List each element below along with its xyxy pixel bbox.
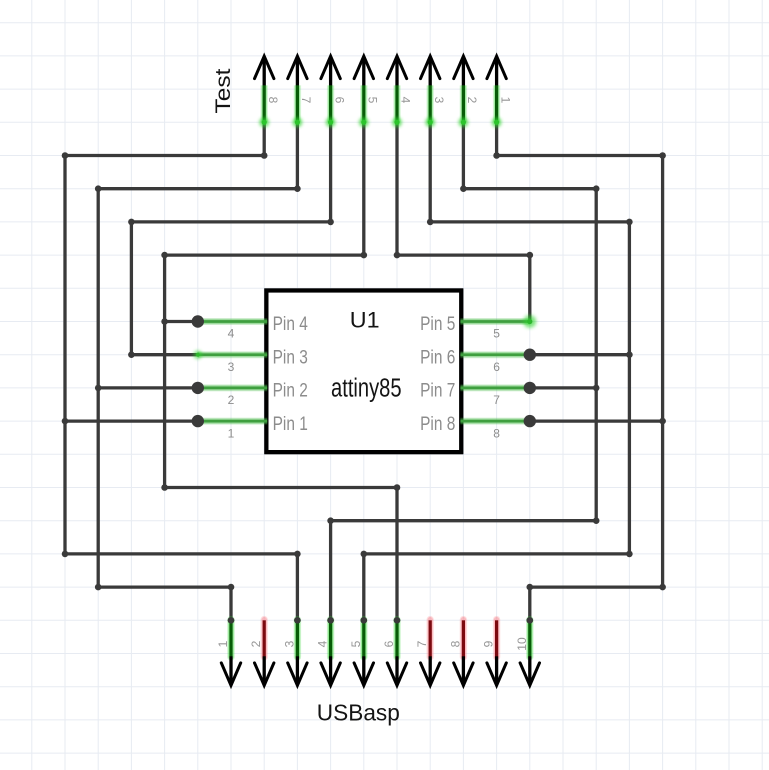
USBasp pin 1 arrow (221, 656, 240, 685)
junction wire end at U1 pin 1 (192, 415, 204, 427)
op-amp U1 attiny85 body (266, 290, 461, 452)
U1 pin 3 connection glow (193, 350, 202, 359)
svg-text:8: 8 (493, 426, 500, 440)
Test pin 6 leg (326, 85, 336, 127)
junction wire end at U1 pin 6 (524, 349, 536, 361)
wire net Test5-U1pin4-USBasp6 (161, 122, 400, 623)
U1 pin 5 leg (460, 318, 529, 325)
svg-text:5: 5 (366, 97, 380, 104)
svg-text:2: 2 (465, 97, 479, 104)
USBasp pin 5 leg (connected) (360, 620, 367, 657)
junction wire end at U1 pin 7 (524, 382, 536, 394)
junction wire end at USBasp pin 1 (228, 617, 235, 624)
svg-text:Pin 3: Pin 3 (273, 347, 308, 368)
wire net Test4-U1pin5 (394, 122, 533, 321)
USBasp pin 10 arrow (520, 656, 539, 685)
Test pin 8 arrow (255, 56, 274, 85)
junction wire end at USBasp pin 10 (527, 617, 534, 624)
U1 pin 5 connection glow (523, 315, 536, 328)
Test pin 6 arrow (321, 56, 340, 85)
svg-text:8: 8 (448, 640, 462, 647)
Test pin 4 leg (392, 85, 402, 127)
Test pin 7 leg (292, 85, 302, 127)
svg-text:7: 7 (415, 640, 429, 647)
USBasp pin 6 arrow (387, 656, 406, 685)
junction wire end at USBasp pin 4 (327, 617, 334, 624)
Test pin 4 arrow (387, 56, 406, 85)
svg-text:5: 5 (349, 640, 363, 647)
USBasp pin 7 arrow (421, 656, 440, 685)
svg-text:Pin 5: Pin 5 (420, 314, 455, 335)
USBasp pin 9 arrow (487, 656, 506, 685)
junction wire end at U1 pin 4 (192, 315, 204, 327)
svg-text:1: 1 (228, 426, 235, 440)
svg-text:Test: Test (211, 68, 235, 113)
USBasp pin 2 arrow (255, 656, 274, 685)
USBasp pin 7 leg (unconnected) (427, 620, 434, 657)
Test pin 3 leg (425, 85, 435, 127)
svg-text:USBasp: USBasp (317, 700, 400, 726)
svg-text:1: 1 (216, 640, 230, 647)
svg-text:7: 7 (299, 97, 313, 104)
svg-text:3: 3 (432, 97, 446, 104)
Test pin 7 arrow (288, 56, 307, 85)
USBasp pin 5 arrow (354, 656, 373, 685)
U1 pin 6 leg (460, 351, 529, 358)
svg-text:4: 4 (228, 327, 235, 341)
Test pin 3 arrow (421, 56, 440, 85)
junction wire end at USBasp pin 6 (394, 617, 401, 624)
USBasp pin 8 leg (unconnected) (460, 620, 467, 657)
U1 pin 1 leg (198, 418, 267, 425)
U1 pin 8 leg (460, 418, 529, 425)
Test pin 2 arrow (454, 56, 473, 85)
svg-text:4: 4 (316, 640, 330, 647)
Test pin 5 leg (359, 85, 369, 127)
Test pin 8 leg (259, 85, 269, 127)
svg-text:Pin 2: Pin 2 (273, 381, 308, 402)
svg-text:9: 9 (482, 640, 496, 647)
svg-text:3: 3 (228, 360, 235, 374)
svg-text:2: 2 (228, 393, 235, 407)
svg-text:U1: U1 (350, 307, 380, 332)
svg-text:Pin 4: Pin 4 (273, 314, 309, 335)
U1 pin 4 leg (198, 318, 267, 325)
svg-text:3: 3 (282, 640, 296, 647)
wire net Test2-U1pin7-USBasp4 (327, 122, 599, 623)
USBasp pin 4 arrow (321, 656, 340, 685)
svg-text:6: 6 (332, 97, 346, 104)
U1 pin 2 leg (198, 384, 267, 391)
wire net Test8-U1pin1-USBasp3 (62, 122, 301, 623)
USBasp pin 2 leg (unconnected) (261, 620, 268, 657)
junction wire end at USBasp pin 5 (361, 617, 368, 624)
USBasp pin 6 leg (connected) (393, 620, 400, 657)
USBasp pin 3 arrow (288, 656, 307, 685)
wire net Test7-U1pin2-USBasp1 (95, 122, 301, 623)
Test pin 5 arrow (354, 56, 373, 85)
wire net Test6-U1pin3 (128, 122, 334, 358)
svg-text:4: 4 (399, 97, 413, 104)
svg-text:8: 8 (266, 97, 280, 104)
svg-text:10: 10 (515, 637, 529, 651)
U1 pin 3 leg (198, 351, 267, 358)
svg-text:5: 5 (493, 327, 500, 341)
USBasp pin 10 leg (connected) (526, 620, 533, 657)
svg-text:7: 7 (493, 393, 500, 407)
junction wire end at U1 pin 8 (524, 415, 536, 427)
U1 pin 7 leg (460, 384, 529, 391)
Test pin 1 arrow (487, 56, 506, 85)
svg-text:6: 6 (493, 360, 500, 374)
svg-text:Pin 6: Pin 6 (420, 347, 455, 368)
USBasp pin 4 leg (connected) (327, 620, 334, 657)
svg-text:6: 6 (382, 640, 396, 647)
wire net Test3-U1pin6-USBasp5 (361, 122, 633, 623)
svg-text:Pin 1: Pin 1 (273, 414, 308, 435)
Test pin 1 leg (492, 85, 502, 127)
junction wire end at USBasp pin 3 (294, 617, 301, 624)
svg-text:2: 2 (249, 640, 263, 647)
USBasp pin 8 arrow (454, 656, 473, 685)
svg-text:Pin 8: Pin 8 (420, 414, 455, 435)
wire net Test1-U1pin8-USBasp10 (493, 122, 666, 623)
Test pin 2 leg (458, 85, 468, 127)
svg-text:1: 1 (498, 97, 512, 104)
USBasp pin 1 leg (connected) (227, 620, 234, 657)
junction wire end at U1 pin 2 (192, 382, 204, 394)
svg-text:Pin 7: Pin 7 (420, 381, 455, 402)
USBasp pin 3 leg (connected) (294, 620, 301, 657)
svg-text:attiny85: attiny85 (331, 374, 402, 402)
USBasp pin 9 leg (unconnected) (493, 620, 500, 657)
